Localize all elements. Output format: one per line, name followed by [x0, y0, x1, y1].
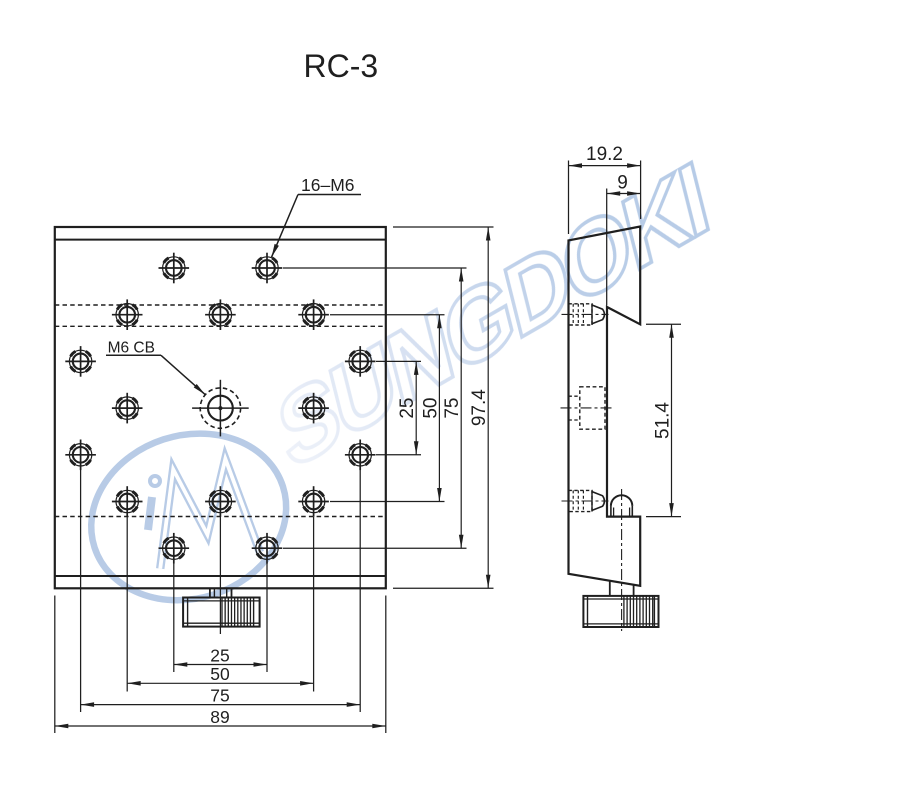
extension lines bottom [55, 470, 386, 733]
tapped hole M6 #5 [298, 299, 329, 330]
svg-text:75: 75 [442, 398, 463, 419]
dimension 75 bottom [81, 685, 361, 707]
watermark i glyph [148, 497, 152, 530]
svg-text:RC-3: RC-3 [304, 48, 379, 84]
center hole M6 CB [192, 380, 249, 437]
dimension 97.4 right [469, 227, 490, 588]
watermark ellipse logo [69, 409, 308, 625]
watermark script letters band [268, 140, 715, 491]
knob screw neck front [210, 588, 232, 597]
svg-text:50: 50 [420, 398, 441, 419]
tapped hole M6 #8 [112, 393, 143, 424]
svg-text:89: 89 [210, 707, 229, 727]
dimension 50 bottom [127, 664, 313, 686]
ball detent side [611, 495, 632, 516]
svg-text:51.4: 51.4 [653, 402, 674, 439]
ball/knob centerline side [621, 489, 623, 631]
watermark M glyph [148, 456, 261, 569]
dimension 75 right [442, 268, 463, 548]
side view body outline [569, 227, 641, 586]
extension lines 19.2 and 9 [569, 161, 641, 306]
svg-text:75: 75 [210, 685, 229, 705]
tapped hole M6 #6 [65, 346, 96, 377]
svg-text:9: 9 [617, 173, 628, 194]
label M6 CB [106, 340, 205, 395]
dimension 51.4 [646, 324, 681, 516]
extension lines right [283, 227, 494, 588]
svg-text:M6 CB: M6 CB [108, 340, 155, 357]
tapped hole M6 #16 [252, 533, 283, 564]
front plate outline [55, 227, 386, 588]
label 16-M6 [272, 175, 362, 257]
tapped hole M6 #13 [205, 486, 236, 517]
plate bottom inner line [55, 575, 386, 577]
knob neck side [610, 581, 634, 596]
dimension 89 bottom [55, 707, 386, 728]
upper spring plunger side [562, 304, 609, 325]
tapped hole M6 #11 [345, 440, 376, 471]
tapped hole M6 #12 [112, 486, 143, 517]
middle hidden block side [561, 387, 615, 429]
knurled knob side [583, 596, 658, 627]
svg-text:97.4: 97.4 [469, 389, 490, 426]
clamp dashed line lower [55, 516, 386, 518]
dimension 50 right [420, 315, 441, 502]
svg-text:25: 25 [210, 646, 229, 666]
dimension 25 bottom [174, 646, 267, 667]
lower spring plunger side [562, 490, 609, 511]
dimension 19.2 [569, 144, 641, 168]
tapped hole M6 #7 [345, 346, 376, 377]
svg-text:19.2: 19.2 [586, 144, 623, 165]
svg-text:50: 50 [210, 664, 230, 684]
knurled knob front [183, 598, 260, 627]
knob centerline front [219, 517, 221, 635]
svg-text:25: 25 [397, 398, 418, 419]
tapped hole M6 #2 [252, 253, 283, 284]
tapped hole M6 #3 [112, 299, 143, 330]
dimension 9 [607, 173, 641, 196]
rail groove dashed line upper 2 [55, 325, 386, 327]
dimension 25 right [397, 361, 418, 454]
tapped hole M6 #10 [65, 440, 96, 471]
tapped hole M6 #9 [298, 393, 329, 424]
rail groove dashed line upper 1 [55, 304, 386, 306]
tapped hole M6 #1 [159, 253, 190, 284]
svg-text:16–M6: 16–M6 [301, 175, 355, 195]
tapped hole M6 #15 [159, 533, 190, 564]
tapped hole M6 #14 [298, 486, 329, 517]
plate top inner line [55, 239, 386, 241]
tapped hole M6 #4 [205, 299, 236, 330]
